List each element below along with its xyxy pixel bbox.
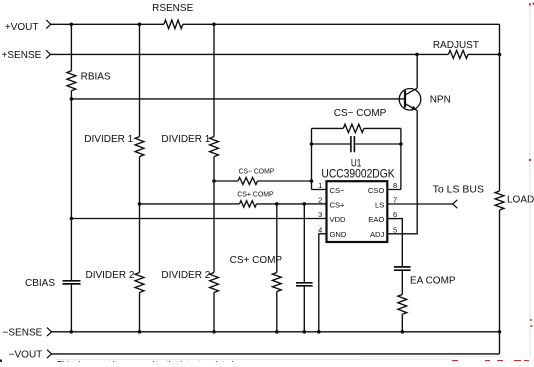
wire CS+ net (y=203.9 from divider to pin 2) bbox=[140, 203, 327, 205]
svg-text:CS+: CS+ bbox=[330, 201, 346, 210]
wire GND line (pin 4 to -SENSE) bbox=[319, 234, 327, 332]
port +VOUT bbox=[46, 20, 51, 28]
svg-text:RADJUST: RADJUST bbox=[433, 40, 479, 51]
resistor RADJUST bbox=[448, 50, 468, 58]
wire NPN base line (y=98.9) bbox=[71, 98, 405, 100]
wire ADJ (pin 5) to NPN emitter bbox=[387, 111, 417, 234]
port -SENSE bbox=[47, 328, 52, 336]
resistor DIVIDER 1 (right) bbox=[210, 137, 219, 157]
svg-text:6: 6 bbox=[393, 210, 397, 219]
svg-text:EA COMP: EA COMP bbox=[410, 276, 456, 287]
page bottom artifact (cut-off red footer text) bbox=[0, 360, 2, 363]
wire divider trunk x=214 bbox=[213, 24, 215, 332]
op-amp U1 UCC39002DGK body bbox=[327, 181, 388, 242]
svg-text:LS: LS bbox=[375, 201, 384, 210]
svg-text:ADJ: ADJ bbox=[370, 230, 385, 239]
svg-text:UCC39002DGK: UCC39002DGK bbox=[321, 168, 394, 180]
transistor NPN body bbox=[399, 89, 421, 111]
svg-text:CS−: CS− bbox=[330, 186, 346, 195]
svg-text:DIVIDER 1: DIVIDER 1 bbox=[161, 134, 210, 145]
svg-text:CS+ COMP: CS+ COMP bbox=[237, 189, 273, 198]
svg-text:DIVIDER 2: DIVIDER 2 bbox=[161, 270, 210, 281]
svg-text:EAO: EAO bbox=[368, 215, 384, 224]
wire CS- COMP parallel loop (resistor branch y=128.4, cap branch y=144) bbox=[312, 128, 401, 189]
resistor RBIAS bbox=[67, 71, 76, 91]
wire left trunk x=71.4 (+VOUT to -SENSE through RBIAS, CBIAS) bbox=[70, 24, 72, 332]
resistor CS- COMP (parallel) bbox=[343, 124, 364, 132]
wire +VOUT rail (y=24.3) bbox=[51, 23, 500, 25]
transistor NPN base bar bbox=[404, 91, 406, 108]
resistor DIVIDER 2 (right) bbox=[210, 273, 219, 293]
wire -VOUT rail (y=353.9) bbox=[52, 353, 500, 355]
resistor CS- COMP (series) bbox=[238, 178, 258, 185]
svg-text:CSO: CSO bbox=[368, 186, 385, 195]
svg-text:−SENSE: −SENSE bbox=[3, 327, 43, 338]
wire -SENSE rail (y=331.8) bbox=[52, 331, 500, 333]
resistor LOAD bbox=[495, 191, 504, 210]
wire divider trunk x=139.5 bbox=[139, 24, 141, 332]
wire +SENSE rail (y=54.4) bbox=[51, 53, 500, 55]
capacitor CS+ COMP (shunt) branch x=304.3 bbox=[303, 204, 305, 332]
svg-text:VDD: VDD bbox=[330, 215, 347, 224]
svg-text:CS− COMP: CS− COMP bbox=[239, 167, 275, 176]
resistor CS+ COMP (shunt) branch x=276.8 bbox=[276, 204, 278, 332]
port -VOUT bbox=[47, 350, 52, 358]
svg-text:DIVIDER 2: DIVIDER 2 bbox=[85, 270, 134, 281]
wire EAO to EA COMP (x=402.3) bbox=[387, 219, 402, 332]
svg-text:−VOUT: −VOUT bbox=[9, 349, 43, 360]
svg-text:CBIAS: CBIAS bbox=[25, 278, 55, 289]
svg-text:1: 1 bbox=[318, 181, 322, 190]
junction dots (solder points) bbox=[70, 23, 502, 334]
capacitor EA COMP bbox=[394, 267, 411, 270]
svg-text:3: 3 bbox=[318, 210, 322, 219]
capacitor CBIAS bbox=[63, 281, 81, 284]
svg-text:To LS BUS: To LS BUS bbox=[433, 185, 485, 196]
svg-text:RBIAS: RBIAS bbox=[81, 72, 111, 83]
svg-text:CS+ COMP: CS+ COMP bbox=[230, 255, 283, 266]
svg-text:DIVIDER 1: DIVIDER 1 bbox=[84, 134, 133, 145]
wire VDD line (y=218.5) bbox=[71, 218, 326, 220]
port To LS BUS bbox=[453, 200, 458, 208]
wire CS- net (y=181 from divider to pin 1 jog) bbox=[214, 128, 327, 189]
svg-text:+VOUT: +VOUT bbox=[5, 22, 39, 33]
wire right trunk x=499.5 bbox=[499, 24, 501, 354]
port +SENSE bbox=[46, 50, 51, 58]
svg-text:RSENSE: RSENSE bbox=[152, 3, 193, 14]
svg-text:CS− COMP: CS− COMP bbox=[334, 108, 387, 119]
svg-text:+SENSE: +SENSE bbox=[2, 50, 42, 61]
resistor DIVIDER 2 (left) bbox=[135, 273, 144, 293]
page edge artifact (scanned page border, right) bbox=[529, 2, 531, 356]
resistor EA COMP bbox=[398, 295, 407, 315]
svg-text:2: 2 bbox=[318, 196, 322, 205]
resistor DIVIDER 1 (left) bbox=[135, 137, 144, 157]
resistor CS+ COMP (series) bbox=[240, 201, 257, 207]
resistor RSENSE bbox=[164, 20, 183, 29]
transistor NPN collector bbox=[405, 54, 417, 94]
capacitor CS- COMP (parallel) bbox=[351, 136, 355, 152]
wire LS output (pin 7, y=204) bbox=[387, 203, 453, 205]
svg-text:8: 8 bbox=[393, 181, 397, 190]
svg-text:4: 4 bbox=[318, 225, 322, 234]
transistor NPN emitter with arrow bbox=[405, 104, 417, 111]
svg-text:NPN: NPN bbox=[430, 95, 451, 106]
svg-text:GND: GND bbox=[330, 230, 347, 239]
svg-text:5: 5 bbox=[393, 225, 397, 234]
